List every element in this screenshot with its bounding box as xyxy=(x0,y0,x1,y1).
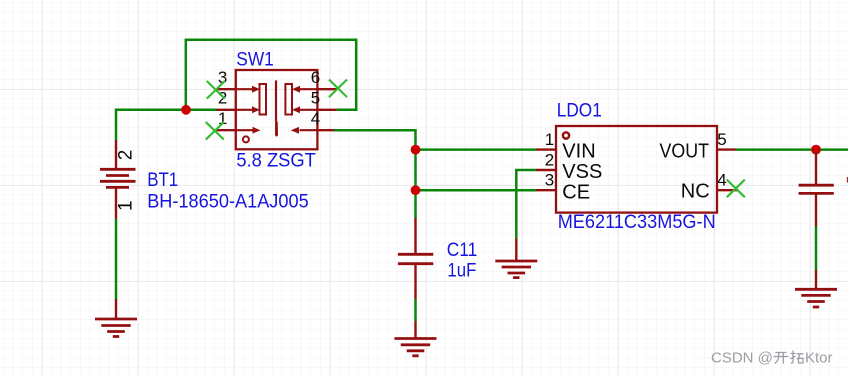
BT1 pin 1 number xyxy=(115,200,136,211)
wire loop junction to SW1 pin 5 xyxy=(186,40,356,110)
junction node VIN xyxy=(411,145,421,155)
svg-text:1: 1 xyxy=(545,130,554,149)
ground (C12) xyxy=(795,270,837,307)
wire battery bottom to ground xyxy=(115,219,118,300)
svg-text:Ktor: Ktor xyxy=(805,350,833,367)
svg-text:5.8 ZSGT: 5.8 ZSGT xyxy=(236,150,316,172)
ground (battery) xyxy=(95,299,137,337)
svg-text:C11: C11 xyxy=(447,239,478,261)
svg-text:CE: CE xyxy=(562,181,590,203)
wire node to LDO1 VIN xyxy=(416,148,537,151)
svg-text:VIN: VIN xyxy=(562,140,595,162)
LDO1 pin 4 number xyxy=(717,171,726,190)
svg-text:6: 6 xyxy=(311,68,320,87)
svg-text:VSS: VSS xyxy=(562,161,602,183)
regulator LDO1 xyxy=(536,126,737,213)
wire LDO1 VOUT to output xyxy=(736,148,848,151)
LDO1 pin name NC xyxy=(681,180,710,202)
watermark xyxy=(711,350,833,367)
svg-text:SW1: SW1 xyxy=(236,49,273,71)
svg-text:1uF: 1uF xyxy=(447,260,476,282)
SW1 pin 6 number xyxy=(311,68,320,87)
BT1 value BH-18650-A1AJ005 xyxy=(147,190,309,212)
LDO1 designator xyxy=(557,100,602,122)
SW1 pin 4 number xyxy=(311,109,320,128)
wire SW1 pin 4 down to C11 xyxy=(334,130,416,218)
svg-text:4: 4 xyxy=(311,109,320,128)
SW1 pin 2 number xyxy=(218,89,227,108)
svg-text:BT1: BT1 xyxy=(147,169,178,191)
svg-text:2: 2 xyxy=(218,89,227,108)
LDO1 value ME6211C33M5G-N xyxy=(558,211,716,233)
wire node to LDO1 CE xyxy=(416,189,537,192)
no-connect X on SW1 pin 6 xyxy=(329,80,347,98)
SW1 pin 1 number xyxy=(218,109,227,128)
svg-text:NC: NC xyxy=(681,180,710,202)
capacitor C12 (output) xyxy=(799,152,834,227)
LDO1 pin name VSS xyxy=(562,161,602,183)
svg-text:3: 3 xyxy=(545,171,554,190)
wire C12 bottom to ground xyxy=(815,227,818,271)
svg-text:5: 5 xyxy=(717,130,726,149)
LDO1 pin name CE xyxy=(562,181,590,203)
wire battery top to SW1 pin 2 xyxy=(116,110,217,140)
junction node CE xyxy=(411,185,421,195)
svg-text:5: 5 xyxy=(311,89,320,108)
wire LDO1 VSS to ground xyxy=(516,170,536,239)
SW1 pin 3 number xyxy=(218,68,227,87)
SW1 pin 5 number xyxy=(311,89,320,108)
BT1 designator xyxy=(147,169,178,191)
BT1 pin 2 number xyxy=(115,150,136,161)
clipped designator at right edge xyxy=(847,177,848,183)
wire C11 bottom to ground xyxy=(414,299,417,321)
LDO1 pin 3 number xyxy=(545,171,554,190)
no-connect X on SW1 pin 3 xyxy=(207,81,225,99)
svg-text:4: 4 xyxy=(717,171,726,190)
SW1 designator xyxy=(236,49,273,71)
svg-text:ME6211C33M5G-N: ME6211C33M5G-N xyxy=(558,211,716,233)
battery BT1 xyxy=(100,140,136,219)
svg-text:VOUT: VOUT xyxy=(660,140,710,162)
svg-text:1: 1 xyxy=(115,200,136,211)
LDO1 pin 2 number xyxy=(545,151,554,170)
svg-text:CSDN @: CSDN @ xyxy=(711,350,773,367)
LDO1 pin name VIN xyxy=(562,140,595,162)
ground (LDO1 VSS) xyxy=(495,239,537,278)
switch SW1 xyxy=(217,70,338,149)
capacitor C11 xyxy=(398,218,433,299)
C11 value 1uF xyxy=(447,260,476,282)
LDO1 pin 1 number xyxy=(545,130,554,149)
svg-text:LDO1: LDO1 xyxy=(557,100,602,122)
svg-text:BH-18650-A1AJ005: BH-18650-A1AJ005 xyxy=(147,190,309,212)
svg-text:2: 2 xyxy=(115,150,136,161)
LDO1 pin name VOUT xyxy=(660,140,710,162)
no-connect X on LDO1 pin 4 NC xyxy=(727,180,745,198)
C11 designator xyxy=(447,239,478,261)
junction node VOUT xyxy=(811,145,821,155)
ground (C11) xyxy=(395,321,437,356)
SW1 value 5.8 ZSGT xyxy=(236,150,316,172)
LDO1 pin 5 number xyxy=(717,130,726,149)
svg-text:2: 2 xyxy=(545,151,554,170)
junction node battery/SW1 xyxy=(181,105,191,115)
no-connect X on SW1 pin 1 xyxy=(206,122,224,140)
